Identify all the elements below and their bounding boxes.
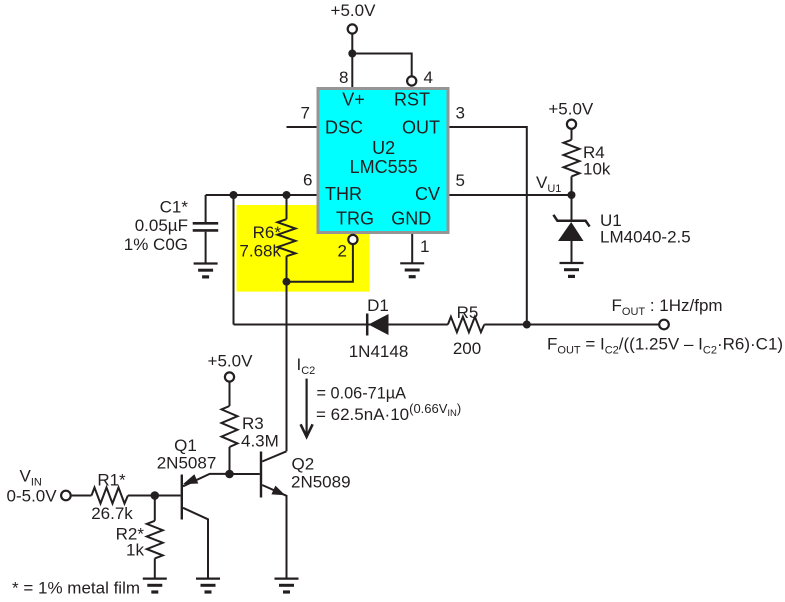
node junction above pin 8 [348,50,356,58]
ground (C1) [194,264,218,277]
ground (pin 1) [400,263,424,276]
svg-text:+5.0V: +5.0V [548,100,594,119]
pin 1 GND wire [411,234,413,263]
svg-text:C1*: C1* [160,198,189,217]
svg-text:6: 6 [303,171,312,190]
svg-text:200: 200 [453,339,481,358]
wire from +5V terminal to pin 8 [351,34,353,87]
node junction R3/Q1 emitter/Q2 base [225,470,234,479]
svg-text:U2: U2 [372,138,395,158]
svg-text:Q1: Q1 [174,436,197,455]
svg-text:2N5089: 2N5089 [291,473,351,492]
node junction R6 bottom / TRG [283,278,291,286]
node junction CV / R4 / U1 [568,191,576,199]
F_OUT terminal [659,320,669,330]
node junction THR/R6 [283,191,291,199]
wire Q2 collector up to R6/TRG node [286,282,288,452]
svg-text:Q2: Q2 [292,455,315,474]
wire from junction to pin 4 [352,54,411,76]
pin 5 CV wire [450,194,572,196]
svg-text:+5.0V: +5.0V [208,352,254,371]
svg-text:TRG: TRG [336,209,374,229]
svg-text:1N4148: 1N4148 [349,342,409,361]
ground (U1) [560,263,584,276]
svg-text:5: 5 [456,171,465,190]
wire node to Q2 base [230,473,260,475]
svg-text:0-5.0V: 0-5.0V [7,487,58,506]
svg-text:2N5087: 2N5087 [157,454,217,473]
svg-text:R5: R5 [457,303,479,322]
svg-text:R1*: R1* [97,471,126,490]
node junction R1/R2/Q1 base [151,491,160,500]
I_C2 current arrow [301,379,313,437]
svg-text:RST: RST [394,90,430,110]
svg-text:OUT: OUT [402,118,440,138]
svg-text:R3: R3 [242,414,264,433]
svg-text:1: 1 [420,237,429,256]
+5.0V terminal (top) [348,24,357,33]
svg-text:D1: D1 [367,296,389,315]
resistor R6 [278,195,296,282]
pin 7 DSC stub wire [287,126,317,128]
pin 2 terminal circle [348,235,357,244]
resistor R5 [448,317,484,332]
svg-text:= 0.06-71µA: = 0.06-71µA [317,384,407,402]
C1 value label [124,198,189,255]
node junction THR/C1 [230,191,238,199]
svg-text:0.05µF: 0.05µF [135,216,188,235]
svg-text:CV: CV [415,184,440,204]
resistor R4 [564,129,580,195]
svg-text:1k: 1k [126,541,144,560]
svg-text:4.3M: 4.3M [241,432,279,451]
svg-text:1% C0G: 1% C0G [124,235,188,254]
svg-text:+5.0V: +5.0V [331,1,377,20]
resistor R2 [147,496,163,579]
zener U1 LM4040-2.5 [553,195,589,263]
THR node wire (pin 6) [206,194,317,196]
wire V_IN terminal to R1 [72,495,92,497]
svg-text:R6*: R6* [253,223,282,242]
R6 value label [239,223,281,261]
wire THR node down to diode rail [233,195,235,325]
wire from R6 bottom to pin 2 TRG [287,245,353,282]
+5.0V terminal (R4) [567,120,576,129]
diode D1 [367,314,388,336]
capacitor C1 [193,195,219,264]
svg-text:FOUT = IC2/((1.25V – IC2·R6)·C: FOUT = IC2/((1.25V – IC2·R6)·C1) [547,335,783,357]
pin 3 OUT wire to F_OUT rail [450,127,527,325]
svg-text:10k: 10k [583,160,611,179]
svg-text:THR: THR [325,184,362,204]
svg-text:DSC: DSC [325,118,363,138]
diode rail wire (right) [484,324,659,326]
ground (R2) [143,579,167,592]
svg-text:LM4040-2.5: LM4040-2.5 [600,228,691,247]
resistor R1 [92,488,128,504]
transistor Q1 2N5087 [181,474,230,579]
transistor Q2 2N5089 [260,451,287,578]
diode rail wire (left) [234,324,448,326]
svg-text:3: 3 [456,104,465,123]
wire R1 to Q1 base [128,495,181,497]
ground (Q2 emitter) [275,579,299,592]
svg-text:8: 8 [339,68,348,87]
ground (Q1 collector) [196,579,220,592]
svg-text:2: 2 [338,242,347,261]
node junction OUT rail / F_OUT [523,321,531,329]
V_IN terminal [61,491,71,501]
svg-text:4: 4 [424,68,433,87]
svg-text:7.68k: 7.68k [239,242,281,261]
svg-text:LMC555: LMC555 [350,157,418,177]
svg-text:26.7k: 26.7k [91,504,133,523]
svg-text:V+: V+ [342,90,365,110]
resistor R3 [222,382,238,474]
op-amp U2 LMC555 IC body [318,89,448,233]
svg-text:7: 7 [301,104,310,123]
svg-text:GND: GND [391,209,431,229]
svg-text:* = 1% metal film: * = 1% metal film [12,579,140,598]
pin 4 terminal circle [407,76,416,85]
+5.0V terminal (R3) [225,372,234,381]
yellow highlight box around R6/TRG [237,205,370,292]
